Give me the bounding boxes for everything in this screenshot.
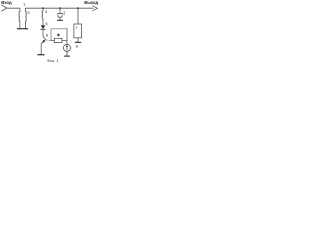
wire left riser [50,29,52,41]
inductor 4 (coil in vertical branch) [41,8,44,25]
svg-text:Вход: Вход [1,0,12,5]
wire to meter [66,40,68,44]
transformer winding 1 (primary) [18,11,21,28]
transformer winding 3 (secondary) [24,11,27,28]
wire capacitor to ground [59,17,61,20]
node 2 junction dot [59,7,61,9]
point-contact diode 6 (zigzag arrow) [41,36,45,54]
wire top bypass [51,28,67,30]
wire to capacitor 2 [59,8,61,13]
ground (element 6 branch) [38,54,44,56]
block 7 (load box) [74,24,82,38]
output arrow [93,6,98,11]
capacitor 2 (electrolytic: plate + cup) [57,12,62,14]
wire diode to element 6 [42,29,44,36]
resistor R (selected value, asterisk) [54,38,62,42]
ground (block 7) [75,41,80,43]
asterisk mark [57,34,59,37]
svg-text:Выход: Выход [84,0,98,5]
ground (secondary) [23,28,27,30]
wire input to transformer primary [7,8,20,11]
ground (primary) [18,28,22,30]
wire right riser [66,29,68,41]
diode 5 [41,25,46,29]
wire top rail [25,8,93,11]
wire to block 7 [77,8,79,24]
ground (capacitor) [58,19,63,21]
wire resistor leads [51,39,67,41]
wire element 6 to resistor branch [46,39,51,42]
wire meter to ground [66,52,68,56]
node 4 junction dot [42,7,44,9]
wire block 7 to ground [77,38,79,42]
ground (meter) [65,55,70,57]
input arrow [2,5,7,11]
svg-text:Фиг. 1: Фиг. 1 [47,58,59,63]
node 7 junction dot [77,7,79,9]
meter (circle with arrow) [63,44,70,51]
